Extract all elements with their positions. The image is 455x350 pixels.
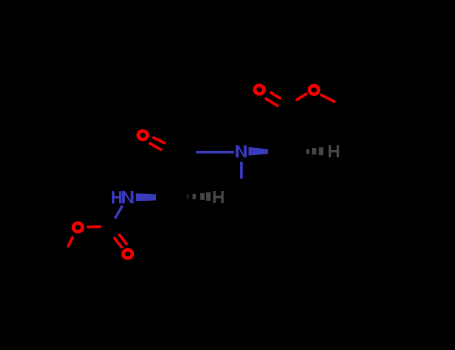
ester C-O bond red half (297, 94, 306, 100)
wire amide C to Ala alpha C (164, 148, 167, 197)
hash wedge Ala C to H (gray bars, growing) (173, 192, 211, 201)
carbamate C=O dark stubs (108, 226, 120, 238)
O to tBu C dark half (62, 246, 68, 257)
phenyl ring (invisible) (389, 73, 453, 147)
ghost carbon skeleton (near-invisible) (20, 73, 453, 294)
wire ester C to proline C2 (281, 104, 289, 152)
carbamate C-O bond red half (88, 225, 100, 228)
wedge HN to Ala C ghost tip (156, 194, 167, 200)
carbamate C=O double bond (red) (115, 235, 127, 247)
carbamate O-C dark half (100, 226, 111, 229)
wire amide C to N half (163, 147, 196, 152)
atom N1 proline nitrogen (236, 145, 247, 157)
tBu methyl 2 (20, 257, 62, 286)
O-CH2 benzyl bond red half (321, 95, 334, 102)
Ala methyl (165, 197, 167, 242)
carbamate N-C dark half (111, 219, 115, 228)
atom H on proline C2 (329, 145, 340, 157)
wedge HN side (blue) (136, 193, 156, 201)
atom O1 carbonyl oxygen (ester) (255, 85, 264, 94)
N1-C5 ring bond blue half (240, 162, 243, 179)
atom O3 amide oxygen (138, 131, 147, 140)
wedge N1 to C2 ghost tip (268, 149, 288, 154)
wire CH2 to phenyl ipso (352, 92, 389, 113)
wire C5 to N half (240, 179, 242, 200)
atom N2 carbamate NH (112, 191, 122, 203)
atom O4 carbamate carbonyl oxygen (123, 250, 132, 259)
atom O5 carbamate ester oxygen (73, 223, 82, 232)
tBu methyl 1 (22, 234, 62, 257)
wedge N1 side (blue) (249, 147, 269, 156)
ester C=O double bond (red) (266, 93, 280, 106)
O to tBu bond red half (68, 238, 72, 247)
pyrrolidine ring C2-C3-C4-C5 (241, 152, 301, 225)
amide C-N bond blue half (196, 151, 234, 154)
amide C=O double bond (red) (150, 138, 164, 150)
atom H on Ala alpha C (213, 191, 224, 203)
wire benzyl CH2 (334, 102, 352, 113)
carbamate N-C bond blue half (115, 206, 123, 219)
atom O2 ester oxygen (309, 86, 318, 95)
tBu methyl 3 (56, 257, 62, 294)
hash wedge C2 to H (gray bars, growing) (294, 147, 324, 155)
